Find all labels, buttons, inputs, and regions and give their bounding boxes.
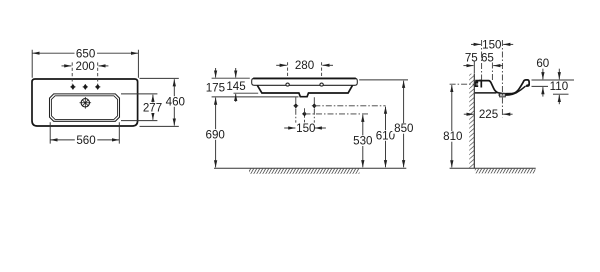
dim 145 <box>226 68 245 102</box>
dim 650 <box>33 47 139 60</box>
dim 560 extension lines <box>50 122 119 143</box>
faucet hole right (front) <box>320 83 323 86</box>
wall bracket <box>475 82 479 88</box>
centreline vertical drain (front) <box>304 108 306 122</box>
basin back tab (side) <box>479 80 481 82</box>
dim 65 <box>481 52 503 66</box>
extension line rim top right (side) <box>532 79 575 81</box>
svg-text:150: 150 <box>482 38 501 51</box>
svg-text:690: 690 <box>206 128 225 141</box>
svg-text:560: 560 <box>76 134 95 147</box>
svg-text:530: 530 <box>353 135 372 148</box>
svg-text:610: 610 <box>376 129 395 142</box>
dim 200 extension dashes <box>72 62 98 84</box>
dim 150 (side) <box>471 38 513 51</box>
basin inner rim outer edge (plan) <box>50 94 120 121</box>
svg-text:850: 850 <box>394 122 413 135</box>
centreline tap vertical <box>481 40 483 80</box>
supply point right <box>312 103 317 108</box>
dim 280 <box>276 59 333 72</box>
dim 75 <box>463 52 477 66</box>
centreline supply row <box>314 105 385 107</box>
svg-text:145: 145 <box>226 80 245 93</box>
centreline vertical left supply <box>295 97 297 122</box>
basin back edge (side) <box>480 80 482 87</box>
dim 277 extension lines <box>121 94 157 121</box>
dim 690 <box>205 98 228 168</box>
extension line basin top left <box>212 77 250 79</box>
wall face line <box>473 74 475 169</box>
svg-text:110: 110 <box>550 80 568 93</box>
dim 110 <box>548 69 571 105</box>
faucet hole left <box>70 84 75 89</box>
svg-text:280: 280 <box>295 59 314 72</box>
centreline fixing horizontal <box>450 83 478 85</box>
basin body with drain boss (front) <box>257 85 352 96</box>
wall hatching <box>469 74 474 169</box>
floor line (front) <box>214 167 406 169</box>
dim 650 extension lines <box>32 50 138 78</box>
svg-text:200: 200 <box>76 60 95 73</box>
floor hatching (front) <box>249 169 359 174</box>
svg-text:650: 650 <box>76 47 95 60</box>
svg-text:225: 225 <box>479 108 498 121</box>
extension line 175 level / boss bottom <box>212 96 299 98</box>
svg-text:810: 810 <box>443 130 462 143</box>
faucet hole left (front) <box>286 83 289 86</box>
dim 277 <box>142 95 165 120</box>
wall face extension above <box>473 61 475 73</box>
svg-text:65: 65 <box>481 52 494 65</box>
supply point left <box>293 103 298 108</box>
dim 60 <box>536 57 549 96</box>
basin outer rim (plan) <box>32 79 138 126</box>
dim 280 extension dashes <box>288 62 322 78</box>
svg-text:75: 75 <box>465 52 478 65</box>
basin inner rim inner edge (plan) <box>51 96 117 120</box>
dim 200 <box>62 60 109 73</box>
extension line lip bottom (side) <box>532 85 549 87</box>
centreline drain vertical (side) <box>501 40 503 117</box>
drain point (front) <box>302 111 307 116</box>
floor line (side) <box>450 167 536 169</box>
extension line bowl bottom (side) <box>553 93 569 95</box>
centreline bowl vertical <box>491 63 493 83</box>
dim 460 extension lines <box>140 78 179 126</box>
drain (plan) <box>80 97 92 109</box>
drain trap box (side) <box>500 94 506 97</box>
basin rim top edge (front) <box>253 77 356 79</box>
basin underside below bowl (side) <box>499 86 526 95</box>
svg-text:175: 175 <box>206 82 225 95</box>
dim 560 <box>50 134 119 147</box>
svg-text:60: 60 <box>536 57 549 70</box>
extension line basin top right <box>359 79 408 81</box>
svg-text:277: 277 <box>143 102 162 115</box>
dim 150 (front) <box>284 122 326 135</box>
basin rim (front) <box>252 78 358 85</box>
basin underside near wall (side) <box>475 92 497 94</box>
faucet hole centre <box>83 84 88 89</box>
dim 460 <box>164 79 187 125</box>
dim 225 <box>464 108 513 121</box>
extension line 145 level <box>234 92 259 94</box>
centreline drain row <box>305 113 370 115</box>
svg-text:150: 150 <box>296 122 315 135</box>
dim 610 <box>374 107 397 168</box>
dim 810 <box>441 85 464 167</box>
faucet hole right <box>95 84 100 89</box>
dim 530 <box>352 115 375 168</box>
centreline vertical right supply <box>313 97 315 122</box>
svg-text:460: 460 <box>166 95 185 108</box>
basin profile deck bowl and lip (side) <box>475 80 529 94</box>
dim 175 <box>206 68 225 95</box>
floor hatching (side) <box>475 169 535 174</box>
dim 850 <box>392 81 415 168</box>
